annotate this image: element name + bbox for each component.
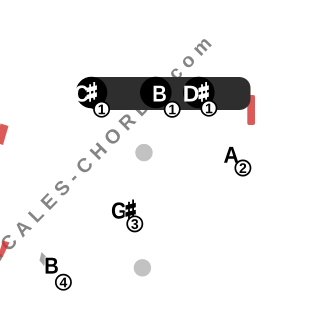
numeral 1 (B): [169, 105, 176, 115]
watermark fragment small (second row piece, bottom left): [40, 252, 48, 266]
label A (black): [224, 147, 238, 163]
finger badge 3 for G#: [127, 216, 142, 231]
finger badge 1 for D#: [201, 101, 216, 116]
barre (fret bar): [86, 77, 251, 110]
unlabeled note (gray circle upper): [135, 144, 152, 161]
finger badge 1 for B: [165, 102, 180, 117]
red watermark fragment right edge: [247, 95, 255, 125]
label B low (black): [46, 258, 58, 274]
red watermark fragment left lower: [0, 241, 10, 258]
label B (white): [154, 86, 166, 102]
label D# (white): [184, 82, 209, 102]
unlabeled note (gray circle lower): [134, 259, 151, 276]
red watermark fragment left upper: [0, 124, 9, 146]
numeral 4 (B low): [60, 278, 68, 288]
note dot C#: [76, 77, 108, 109]
note dot B: [140, 77, 172, 109]
label C# (white): [75, 82, 97, 102]
note dot D#: [183, 77, 215, 109]
numeral 1 (D#): [206, 104, 213, 114]
finger badge 1 for C#: [94, 102, 109, 117]
numeral 2 (A): [240, 163, 247, 173]
finger badge 2 for A: [235, 160, 250, 175]
watermark SCALES-CHORDS.com (diagonal): [0, 36, 212, 266]
label G# (black): [112, 200, 136, 220]
numeral 1 (C#): [99, 105, 106, 115]
finger badge 4 for B low: [56, 275, 71, 290]
numeral 3 (G#): [131, 219, 138, 229]
